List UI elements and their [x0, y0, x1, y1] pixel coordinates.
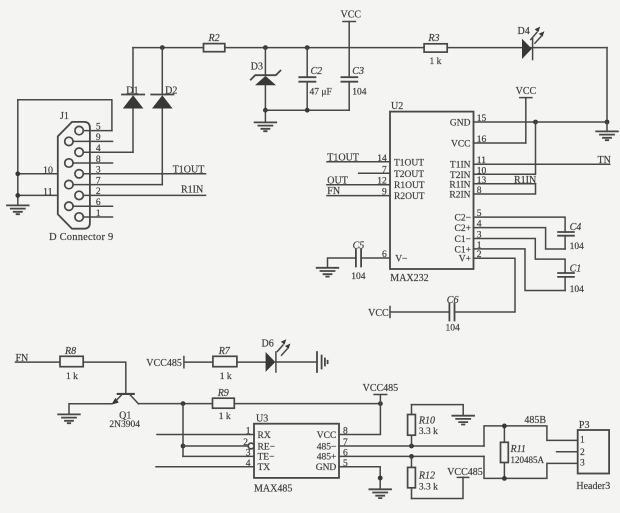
svg-text:C2+: C2+ [455, 224, 471, 234]
svg-text:7: 7 [343, 438, 348, 448]
svg-text:T1OUT: T1OUT [327, 152, 359, 163]
J1 pin hole 3 [75, 170, 83, 178]
svg-text:3.3 k: 3.3 k [419, 483, 438, 493]
wire Q1 emitter to ground [69, 404, 112, 414]
svg-text:U3: U3 [256, 414, 268, 425]
wire pin5 up to top-left rail [18, 100, 112, 131]
svg-text:R9: R9 [217, 388, 229, 399]
svg-text:TX: TX [258, 463, 271, 473]
svg-text:4: 4 [246, 459, 251, 469]
node junction R11 bottom [502, 476, 507, 481]
svg-text:2: 2 [477, 250, 482, 260]
svg-text:485B: 485B [524, 415, 546, 426]
J1 pin hole 9 [65, 137, 73, 145]
connector P3 header [576, 420, 610, 492]
node junction R12 top [409, 454, 414, 459]
wire vertical VCC485 node to pin8 [339, 404, 380, 435]
svg-text:D2: D2 [165, 85, 177, 96]
resistor R7 [213, 346, 237, 382]
svg-text:C3: C3 [352, 66, 364, 77]
ground at Q1 emitter [58, 414, 80, 423]
resistor R8 [60, 346, 83, 382]
U2 pin 5 wire to C4 [474, 209, 566, 232]
J1 pin 7 stub [73, 176, 162, 186]
svg-text:C2: C2 [311, 66, 323, 77]
J1 pin 3 wire T1OUT [83, 166, 205, 176]
svg-text:9: 9 [96, 133, 101, 143]
svg-text:104: 104 [352, 88, 367, 98]
U2 pin 11 wire TN [474, 156, 610, 166]
wire Q1 collector row [139, 403, 381, 405]
node junction VCC485 [378, 401, 383, 406]
wire R8 to Q1 base [83, 362, 126, 393]
svg-text:9: 9 [382, 188, 387, 198]
VCC485 power symbol at R12 [447, 467, 483, 478]
node junction pin11 [15, 193, 20, 198]
U2 pin 8 wire [474, 184, 536, 196]
svg-text:OUT: OUT [327, 175, 348, 186]
capacitor C4 [558, 222, 584, 252]
ground under D3 [255, 110, 277, 131]
wire right vertical from rail to ground [606, 48, 608, 122]
svg-text:7: 7 [382, 165, 387, 175]
svg-text:16: 16 [477, 135, 487, 145]
wire R12 bottom to VCC485 [412, 477, 464, 498]
svg-text:104: 104 [570, 242, 585, 252]
wire C5 to ground [328, 258, 356, 268]
U2 pin 12 wire OUT [327, 177, 390, 187]
J1 pin 10 wire [18, 165, 58, 176]
U3 pin 1 RX wire [157, 427, 254, 437]
svg-text:C5: C5 [353, 240, 365, 251]
svg-text:C1−: C1− [455, 235, 471, 245]
svg-text:1 k: 1 k [430, 57, 442, 67]
VCC485 stub bar [184, 357, 213, 368]
svg-text:R3: R3 [427, 33, 439, 44]
J1 pin 5 stub [83, 122, 112, 132]
wire 485B bottom rail [484, 456, 578, 478]
J1 pin 9 stub [73, 133, 112, 143]
svg-text:T1OUT: T1OUT [394, 158, 424, 168]
wire vertical collector node to U3 [182, 404, 184, 457]
svg-text:47 μF: 47 μF [310, 87, 332, 97]
svg-text:8: 8 [477, 186, 482, 196]
svg-text:R1IN: R1IN [449, 180, 470, 190]
U2 pin 13 wire [474, 176, 536, 186]
node junction RE- [181, 444, 186, 449]
svg-text:2: 2 [580, 448, 585, 458]
U3 pin 4 TX wire [156, 459, 254, 469]
svg-text:1: 1 [96, 209, 101, 219]
ground top right [596, 122, 618, 140]
svg-text:8: 8 [343, 427, 348, 437]
node junction C2 bottom [305, 108, 310, 113]
U2 inner pin names left [394, 158, 425, 264]
U2 pin 3 wire to C1 [474, 231, 566, 274]
U2 pin 1 wire to C1 bottom [474, 241, 566, 291]
svg-text:12: 12 [377, 177, 387, 187]
svg-text:5: 5 [343, 459, 348, 469]
resistor R11 [501, 426, 545, 479]
svg-text:1 k: 1 k [219, 412, 231, 422]
svg-text:120485A: 120485A [511, 455, 545, 465]
diode D2 [151, 48, 177, 185]
svg-text:VCC: VCC [341, 10, 362, 21]
svg-text:T1OUT: T1OUT [173, 164, 205, 175]
U3 pin 5 GND wire [339, 459, 380, 489]
capacitor C1 [558, 264, 584, 296]
svg-text:R10: R10 [418, 415, 435, 426]
svg-text:U2: U2 [391, 101, 403, 112]
U2 pin 16 VCC wire [474, 135, 526, 145]
U3 pin 6 485+ wire [339, 448, 484, 458]
svg-text:C2−: C2− [455, 214, 471, 224]
svg-text:3: 3 [580, 459, 585, 469]
resistor R2 [204, 33, 225, 52]
svg-text:15: 15 [477, 114, 487, 124]
svg-text:104: 104 [570, 285, 585, 295]
svg-text:VCC: VCC [317, 431, 337, 441]
U2 pin 2 V+ wire to C6 [455, 250, 516, 312]
J1 pin 11 wire [18, 187, 58, 198]
svg-text:TN: TN [598, 155, 611, 166]
svg-text:R1IN: R1IN [181, 185, 203, 196]
zener diode D3 [251, 48, 281, 111]
U3 pin 2 RE- wire with bubble [183, 438, 254, 449]
connector J1 body [49, 111, 113, 243]
svg-text:GND: GND [450, 118, 471, 128]
J1 pin hole 8 [65, 159, 73, 167]
J1 pin hole 1 [75, 213, 83, 221]
svg-text:RX: RX [258, 431, 271, 441]
svg-text:D1: D1 [126, 85, 138, 96]
U2 pin 10 wire [474, 122, 536, 176]
svg-text:R1IN: R1IN [514, 175, 536, 186]
svg-text:VCC: VCC [516, 86, 537, 97]
svg-text:MAX232: MAX232 [390, 273, 428, 284]
node junction C2 top [305, 45, 310, 50]
resistor R3 [424, 33, 447, 67]
capacitor C5 [351, 240, 366, 281]
ground left of J1 [7, 205, 29, 214]
J1 pin 1 stub [83, 209, 112, 219]
svg-text:Header3: Header3 [576, 481, 610, 492]
ground right of R10 [452, 416, 474, 425]
wire C6 left to VCC stub [390, 311, 449, 313]
node junction pin10 [15, 171, 20, 176]
svg-text:5: 5 [96, 122, 101, 132]
svg-text:13: 13 [477, 176, 487, 186]
J1 pin 2 wire R1IN [83, 187, 205, 197]
wire R7 to D6 [237, 361, 266, 363]
svg-text:11: 11 [477, 156, 486, 166]
node junction D2 top [160, 45, 165, 50]
svg-text:1 k: 1 k [66, 372, 78, 382]
svg-text:485+: 485+ [317, 453, 337, 463]
svg-text:104: 104 [446, 323, 461, 333]
resistor R10 [408, 405, 439, 446]
svg-text:1: 1 [580, 436, 585, 446]
svg-text:C4: C4 [570, 222, 582, 233]
node junction R11 top [502, 424, 507, 429]
svg-text:J1: J1 [60, 111, 69, 122]
U3 pin 8 VCC wire [343, 427, 348, 437]
svg-text:R11: R11 [510, 444, 526, 455]
capacitor C6 [446, 295, 461, 333]
svg-text:P3: P3 [579, 420, 590, 431]
svg-text:R8: R8 [64, 346, 76, 357]
svg-text:MAX485: MAX485 [254, 483, 292, 494]
svg-text:3: 3 [477, 231, 482, 241]
svg-text:D3: D3 [251, 62, 263, 73]
svg-text:VCC485: VCC485 [447, 467, 483, 478]
transistor Q1 [109, 394, 140, 430]
J1 pin 8 stub [73, 155, 112, 165]
svg-text:10: 10 [477, 166, 487, 176]
svg-text:RE−: RE− [258, 442, 276, 452]
wire FN to R8 [16, 361, 61, 363]
svg-text:6: 6 [343, 448, 348, 458]
IC U3 body [254, 414, 339, 495]
resistor R9 [213, 388, 235, 422]
svg-text:R1OUT: R1OUT [394, 181, 425, 191]
wire top VCC rail [133, 47, 607, 49]
svg-text:10: 10 [43, 165, 53, 176]
U2 pin 15 GND wire [474, 114, 608, 124]
svg-text:R12: R12 [418, 471, 435, 482]
U3 pin 7 485- wire [339, 438, 484, 448]
svg-text:1: 1 [246, 427, 251, 437]
svg-text:R2IN: R2IN [449, 191, 470, 201]
capacitor C2 [299, 48, 331, 111]
svg-text:V−: V− [395, 255, 407, 265]
ground rotated right of D6 [317, 352, 328, 372]
svg-text:VCC: VCC [451, 140, 471, 150]
U2 pin 4 wire to C4 bottom [474, 220, 566, 249]
wire left vertical [17, 100, 19, 205]
svg-text:4: 4 [477, 220, 482, 230]
svg-text:2: 2 [96, 187, 101, 197]
svg-text:3.3 k: 3.3 k [419, 427, 438, 437]
svg-text:GND: GND [316, 463, 337, 473]
LED D4 [518, 26, 545, 60]
wire bottom of C2/C3 to D3 [265, 109, 349, 111]
ground under U3 pin5 [369, 489, 391, 498]
node junction at right ground [605, 120, 610, 125]
svg-text:C6: C6 [447, 295, 459, 306]
svg-text:TE−: TE− [258, 453, 275, 463]
svg-text:14: 14 [377, 154, 387, 164]
node junction GND wire [533, 120, 538, 125]
U2 pin 7 stub [359, 165, 390, 175]
svg-text:T2IN: T2IN [450, 171, 471, 181]
svg-text:4: 4 [96, 144, 101, 154]
capacitor C3 [341, 48, 366, 111]
U2 pin 14 wire T1OUT [327, 154, 390, 164]
node junction pin5 ground [378, 476, 383, 481]
node junction D3 bottom [263, 108, 268, 113]
node junction collector [181, 401, 186, 406]
node junction R10 bottom [409, 444, 414, 449]
LED D6 [262, 339, 291, 372]
J1 pin hole 6 [65, 202, 73, 210]
VCC power stub at C6 [368, 307, 390, 320]
svg-text:8: 8 [96, 155, 101, 165]
node junction D3 top [263, 45, 268, 50]
J1 pin hole 7 [65, 180, 73, 188]
svg-text:FN: FN [327, 186, 340, 197]
svg-text:3: 3 [96, 166, 101, 176]
VCC power symbol above pin16 [516, 86, 537, 143]
svg-text:5: 5 [477, 209, 482, 219]
svg-text:VCC485: VCC485 [363, 383, 399, 394]
J1 pin 6 stub [73, 198, 112, 208]
svg-text:R2OUT: R2OUT [394, 192, 425, 202]
svg-text:11: 11 [43, 187, 53, 198]
svg-text:VCC: VCC [368, 308, 389, 319]
J1 pin hole 4 [75, 148, 83, 156]
svg-text:104: 104 [351, 272, 366, 282]
J1 pin hole 2 [75, 191, 83, 199]
J1 pin 4 stub [83, 144, 133, 154]
resistor R12 [408, 456, 439, 498]
wire R10 top to ground [412, 405, 464, 416]
ground at C5 [317, 268, 339, 277]
svg-text:R7: R7 [218, 346, 231, 357]
P3 pin 2 stub [557, 451, 578, 453]
U3 inner pin names [258, 431, 337, 473]
svg-text:6: 6 [382, 250, 387, 260]
svg-text:3: 3 [246, 448, 251, 458]
svg-text:1 k: 1 k [220, 372, 232, 382]
diode D1 [122, 48, 144, 153]
svg-text:7: 7 [96, 176, 101, 186]
svg-text:D4: D4 [518, 26, 530, 37]
svg-text:T1IN: T1IN [450, 161, 471, 171]
svg-text:2: 2 [243, 438, 248, 448]
svg-text:R2: R2 [208, 33, 220, 44]
U3 pin 3 TE- wire [183, 448, 254, 458]
svg-text:V+: V+ [459, 255, 471, 265]
svg-text:6: 6 [96, 198, 101, 208]
svg-text:VCC485: VCC485 [146, 358, 182, 369]
svg-text:D6: D6 [262, 339, 274, 350]
U2 pin 6 wire V- [361, 250, 390, 260]
U2 inner pin names right [449, 118, 471, 264]
wire D6 to ground [276, 361, 317, 363]
svg-text:T2OUT: T2OUT [394, 170, 424, 180]
svg-text:C1: C1 [570, 264, 582, 275]
VCC485 power symbol above R9 node [363, 383, 399, 404]
U2 pin 9 wire FN [327, 188, 390, 198]
IC U2 body [390, 101, 474, 284]
svg-text:2N3904: 2N3904 [109, 420, 140, 430]
wire 485B top rail [484, 426, 578, 446]
svg-text:485−: 485− [317, 442, 337, 452]
J1 pin hole 5 [75, 126, 83, 134]
svg-text:D Connector 9: D Connector 9 [49, 232, 113, 243]
VCC power symbol top [341, 10, 362, 48]
